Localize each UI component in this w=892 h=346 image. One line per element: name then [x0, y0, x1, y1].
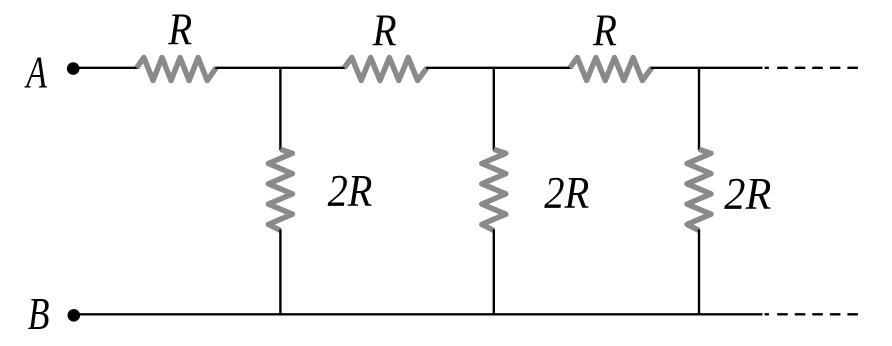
resistor R1: [137, 58, 217, 81]
node B terminal dot: [68, 309, 81, 322]
wire branch 2 lower: [493, 229, 495, 314]
svg-text:2R: 2R: [724, 170, 771, 219]
wire branch 3 upper: [698, 68, 700, 151]
svg-text:A: A: [24, 48, 48, 98]
wire branch 2 upper: [493, 68, 495, 151]
wire top: R3 to solid end: [651, 67, 763, 69]
wire branch 1 lower: [279, 229, 281, 314]
svg-text:R: R: [372, 6, 397, 56]
svg-text:R: R: [592, 6, 617, 56]
svg-text:R: R: [167, 5, 192, 55]
resistor 2R #2: [482, 149, 506, 230]
wire branch 1 upper: [279, 68, 281, 151]
label 2R (#1): [328, 167, 373, 217]
wire bottom dashed continuation: [765, 313, 858, 315]
svg-text:2R: 2R: [544, 169, 589, 218]
node A terminal dot: [67, 62, 80, 75]
wire branch 3 lower: [698, 229, 700, 314]
resistor R2: [344, 58, 427, 81]
wire bottom: B dot to solid end: [74, 313, 763, 315]
label A: [24, 48, 48, 98]
label B: [28, 289, 50, 339]
svg-text:B: B: [28, 289, 50, 339]
label R (R1): [167, 5, 192, 55]
wire top dashed continuation: [765, 67, 858, 69]
label 2R (#2): [544, 169, 589, 218]
wire top: A dot to R1: [73, 67, 138, 69]
wire top: R1 to R2 through node 1: [215, 67, 345, 69]
resistor 2R #3: [687, 149, 711, 230]
label 2R (#3): [724, 170, 771, 219]
label R (R3): [592, 6, 617, 56]
wire top: R2 to R3 through node 2: [426, 67, 571, 69]
resistor 2R #1: [268, 149, 292, 230]
svg-text:2R: 2R: [328, 167, 373, 217]
label R (R2): [372, 6, 397, 56]
resistor R3: [570, 58, 652, 81]
